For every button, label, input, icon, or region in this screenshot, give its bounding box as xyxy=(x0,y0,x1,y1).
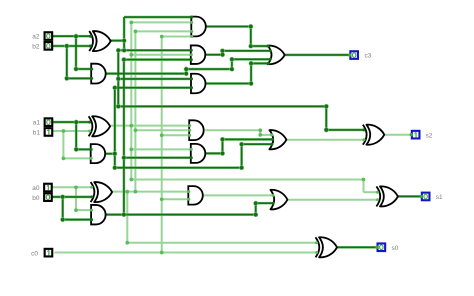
junction U4 corner2 xyxy=(220,48,225,53)
wire a2 to AND U2 xyxy=(76,68,92,70)
svg-text:a0: a0 xyxy=(32,185,40,192)
wire AND U3 out xyxy=(205,26,251,28)
input pin a2 xyxy=(45,32,53,40)
wire p2 down xyxy=(123,41,125,51)
junction g2 corner4 xyxy=(229,57,234,62)
wire g1 to AND U5 xyxy=(115,87,192,89)
wire end cap xyxy=(90,218,93,221)
junction g0 T xyxy=(121,155,126,160)
junction p0 corner2 xyxy=(134,30,138,34)
junction b1 branch xyxy=(62,129,66,133)
wire g2 from AND U2 xyxy=(106,73,187,75)
junction p1 xyxy=(129,124,133,128)
wire end cap xyxy=(90,209,93,212)
junction corner b1 xyxy=(62,157,66,161)
wire to OR U6 in4 xyxy=(251,62,268,64)
junction U5 corner xyxy=(249,81,254,86)
and U3 p2p1p0c0 xyxy=(191,17,206,37)
wire p1 to AND U3 xyxy=(131,21,192,23)
junction p1 corner xyxy=(129,21,133,25)
wire end cap xyxy=(188,124,191,127)
wire end cap xyxy=(376,198,379,201)
junction p0 b xyxy=(134,190,138,194)
and U17 p1p0c0 xyxy=(189,120,204,140)
wire end cap xyxy=(315,251,318,254)
wire end cap xyxy=(267,45,270,48)
wire g0 rise xyxy=(255,203,257,214)
wire p2 to AND U4 xyxy=(118,49,191,51)
svg-text:b0: b0 xyxy=(32,195,40,202)
input pin b0 xyxy=(44,193,52,201)
wire end cap xyxy=(190,77,193,80)
wire a0 to AND U13 xyxy=(76,209,92,211)
wire p1 column xyxy=(130,22,132,179)
wire end cap xyxy=(190,156,193,159)
xor U11 p0=a0^b0 xyxy=(94,182,112,202)
svg-text:b1: b1 xyxy=(33,129,41,136)
wire p1 long run xyxy=(131,179,363,181)
wire p1 to AND U4 xyxy=(131,54,191,56)
junction g2 corner xyxy=(184,71,189,76)
wire end cap xyxy=(190,148,193,151)
wire p2 drop xyxy=(325,106,327,129)
junction c0 T xyxy=(160,133,164,137)
wire AND U4 out xyxy=(205,54,223,56)
junction g2 corner3 xyxy=(229,67,234,72)
xor U15 s1=p1^c1 xyxy=(380,186,398,206)
wire c0 to AND U17 xyxy=(162,134,190,136)
junction U3 corner xyxy=(248,24,253,29)
svg-text:a1: a1 xyxy=(33,120,41,127)
junction g1 corner2 xyxy=(112,165,117,170)
wire g0 column xyxy=(123,60,125,215)
wire p2 riser xyxy=(123,17,125,40)
wire end cap xyxy=(90,77,93,80)
wire g1 column xyxy=(114,88,116,168)
wire b0 to XOR U11 xyxy=(52,196,91,198)
wire U17 jog xyxy=(259,130,261,135)
junction corner a0 xyxy=(74,208,78,212)
junction corner b2 xyxy=(64,76,69,81)
xor U16 s0=p0^c0 xyxy=(319,237,337,257)
wire end cap xyxy=(190,35,193,38)
output pin s0 xyxy=(378,243,386,251)
wire p1 drop xyxy=(363,180,365,193)
wire a0 to XOR U11 xyxy=(52,186,91,188)
wire AND U5 out xyxy=(205,83,252,85)
junction b2 branch xyxy=(64,44,69,49)
wire AND U10 out xyxy=(205,152,223,154)
wire g2 rise xyxy=(231,59,233,69)
wire g1 to OR U9 xyxy=(242,143,272,145)
wire end cap xyxy=(89,45,92,48)
wire p1 to AND U10 xyxy=(131,148,191,150)
junction p2 corner2 xyxy=(116,104,121,109)
wire g0 from AND U13 xyxy=(106,214,256,216)
xor U7 p1=a1^b1 xyxy=(92,116,110,136)
junction U5 corner2 xyxy=(249,61,254,66)
junction g1 corner3 xyxy=(239,165,244,170)
wire end cap xyxy=(271,138,274,141)
input pin a1 xyxy=(45,118,53,126)
svg-text:c0: c0 xyxy=(31,250,38,257)
wire end cap xyxy=(188,134,191,137)
junction g0 corner xyxy=(121,57,126,62)
wire end cap xyxy=(362,128,365,131)
xor U1 p2=a2^b2 xyxy=(93,31,111,51)
wire to OR U6 in1 xyxy=(251,45,268,47)
junction a1 branch xyxy=(74,120,79,125)
wire s2 from XOR U12 xyxy=(384,134,411,136)
wire U5 rise xyxy=(250,63,252,83)
wire end cap xyxy=(190,30,193,33)
junction g0 corner3 xyxy=(253,201,258,206)
or U9 c2 xyxy=(269,130,286,149)
wire end cap xyxy=(270,143,273,146)
wire b2 to AND U2 xyxy=(67,77,92,79)
or U14 c1 xyxy=(270,190,287,210)
wire p0 from XOR U11 to AND U18 xyxy=(112,191,189,193)
junction b0 branch xyxy=(60,194,65,199)
wire g0 to AND U10 xyxy=(124,157,191,159)
wire g0 to AND U4 xyxy=(124,59,191,61)
junction p2 corner3 xyxy=(324,104,329,109)
wire end cap xyxy=(90,186,93,189)
input pin c0 xyxy=(45,249,53,257)
junction p2 T xyxy=(122,48,127,53)
wire a1 to AND U8 xyxy=(76,148,91,150)
wire end cap xyxy=(90,68,93,71)
wire halo fringes for logic-0 nets xyxy=(53,35,90,38)
wire b2 to XOR U1 xyxy=(53,45,90,47)
wire end cap xyxy=(90,195,93,198)
wire end cap xyxy=(272,202,275,205)
wire s0 from XOR U16 xyxy=(337,246,377,248)
junction U17 corner xyxy=(258,128,262,132)
and U18 p0c0 xyxy=(188,186,203,205)
junction g1 corner4 xyxy=(239,142,244,147)
wire g0 to OR U14 xyxy=(256,202,273,204)
wire b0 branch down xyxy=(62,197,64,220)
junction p0 xyxy=(125,190,129,194)
wire p2 column xyxy=(117,50,119,106)
wire end cap xyxy=(190,16,193,19)
wire b1 branch down xyxy=(62,131,64,158)
junction p1 T2 xyxy=(129,148,133,152)
or U6 c3 xyxy=(268,46,285,65)
junction g1 corner xyxy=(112,85,117,90)
wire end cap xyxy=(90,148,93,151)
wire p2 long run xyxy=(118,105,326,107)
input pin a0 xyxy=(44,184,52,192)
junction p1 T xyxy=(129,53,133,57)
wire c0 to AND U3 xyxy=(162,36,192,38)
wire end cap xyxy=(269,58,272,61)
and U8 g1=a1&b1 xyxy=(91,144,106,163)
junction p0 corner xyxy=(125,241,129,245)
wire g1 rise xyxy=(241,144,243,168)
wire end cap xyxy=(89,35,92,38)
wire a2 branch down xyxy=(75,36,77,69)
wire c3 from OR U6 xyxy=(285,54,350,56)
and U5 p2g1 xyxy=(191,74,206,94)
junction U17 corner2 xyxy=(258,133,262,137)
and U2 g2=a2&b2 xyxy=(91,64,106,84)
wire b1 to AND U8 xyxy=(63,157,91,159)
wire to OR U6 in2 xyxy=(223,50,271,52)
input pin b1 xyxy=(45,128,53,136)
svg-text:a2: a2 xyxy=(32,34,40,41)
wire g1 long run xyxy=(115,167,242,169)
junction g1 xyxy=(112,151,117,156)
junction p2 corner xyxy=(116,48,121,53)
wire end cap xyxy=(190,86,193,89)
wire AND U18 out to OR U14 xyxy=(202,194,273,196)
wire AND U3 drop xyxy=(250,27,252,47)
wire p0 to AND U3 xyxy=(135,30,191,32)
svg-text:b2: b2 xyxy=(32,43,40,50)
junction g2 corner2 xyxy=(184,67,189,72)
junction a0 branch xyxy=(74,185,78,189)
wire U4 jog xyxy=(222,51,224,55)
junction p1 corner3 xyxy=(362,178,366,182)
wire end cap xyxy=(90,157,93,160)
junction p0 T xyxy=(134,128,138,132)
junction a2 branch xyxy=(74,34,79,39)
wire c0 from pin to XOR U16 xyxy=(55,252,317,254)
junction U10 corner2 xyxy=(220,137,225,142)
wire AND U17 out xyxy=(205,129,260,131)
wire g1 from AND U8 xyxy=(105,153,115,155)
svg-text:s1: s1 xyxy=(436,194,443,201)
junction U10 corner xyxy=(220,151,225,156)
wire p2 to AND U3 xyxy=(124,16,192,18)
wire c1 from OR U14 to XOR U15 xyxy=(286,199,378,201)
wire end cap xyxy=(376,191,379,194)
wire end cap xyxy=(272,194,275,197)
svg-text:s2: s2 xyxy=(426,132,433,139)
wire a1 branch down xyxy=(75,122,77,149)
junction U4 corner xyxy=(220,52,225,57)
xor U12 s2=p2^c2 xyxy=(366,125,384,145)
wire p1 to XOR U15 xyxy=(364,191,378,193)
wire a2 to XOR U1 xyxy=(53,35,90,37)
junction g0 xyxy=(121,212,126,217)
junction p2 T2 xyxy=(116,76,121,81)
wire end cap xyxy=(88,121,91,124)
wire end cap xyxy=(188,129,191,132)
junction corner b0 xyxy=(60,217,65,222)
wire end cap xyxy=(190,58,193,61)
junction corner a1 xyxy=(74,147,79,152)
wire end cap xyxy=(362,138,365,141)
and U10 p1g0 xyxy=(191,144,206,163)
junction g0 corner2 xyxy=(253,212,258,217)
wire end cap xyxy=(190,53,193,56)
wire s1 from XOR U15 xyxy=(398,195,421,197)
wire to OR U9 in1 xyxy=(260,134,272,136)
output pin s2 xyxy=(412,131,420,139)
junction p2 xyxy=(122,38,127,43)
junction U3 corner2 xyxy=(248,44,253,49)
wire a0 branch down xyxy=(75,187,77,210)
output pin c3 xyxy=(350,51,358,59)
wire c0 column xyxy=(161,37,163,253)
junction c0 corner xyxy=(160,35,164,39)
wire g2 to OR U6 xyxy=(232,58,270,60)
wire end cap xyxy=(187,190,190,193)
svg-text:s0: s0 xyxy=(392,245,399,252)
wire g2 run xyxy=(186,68,232,70)
wire end cap xyxy=(267,62,270,65)
wire end cap xyxy=(270,133,273,136)
wire U10 rise xyxy=(222,139,224,153)
junction corner a2 xyxy=(74,67,79,72)
wire p2 to AND U5 xyxy=(118,78,191,80)
wire end cap xyxy=(88,130,91,133)
wire p0 column xyxy=(134,31,136,191)
wire c0 to AND U18 xyxy=(162,198,189,200)
wire b1 to XOR U7 xyxy=(53,130,90,132)
junction c0 T2 xyxy=(160,197,164,201)
wire end cap xyxy=(187,198,190,201)
wire end cap xyxy=(269,49,272,52)
wire end cap xyxy=(190,49,193,52)
wire p0 drop column xyxy=(126,192,128,243)
wire p2 to XOR U12 xyxy=(326,129,364,131)
output pin s1 xyxy=(422,193,430,201)
junction p2 corner4 xyxy=(324,127,329,132)
wire end cap xyxy=(315,241,318,244)
svg-text:c3: c3 xyxy=(365,53,372,60)
input pin b2 xyxy=(45,42,53,50)
and U13 g0=a0&b0 xyxy=(91,205,106,225)
wire b0 to AND U13 xyxy=(63,219,92,221)
wire end cap xyxy=(190,21,193,24)
wire b2 branch down xyxy=(66,46,68,78)
wire p0 to XOR U16 xyxy=(127,242,316,244)
wire p1 from XOR U7 to AND U17 xyxy=(110,125,190,127)
wire c2 from OR U9 to XOR U12 xyxy=(286,139,364,141)
wire g2 jog up xyxy=(185,69,187,74)
wire to OR U9 in2 xyxy=(223,138,273,140)
junction c0 xyxy=(160,251,164,255)
junction p1 corner2 xyxy=(129,178,133,182)
wire p2 from XOR U1 output xyxy=(111,40,125,42)
and U4 p2p1g0 xyxy=(191,45,206,64)
wire a1 to XOR U7 xyxy=(53,121,90,123)
wire p0 to AND U17 xyxy=(135,129,189,131)
